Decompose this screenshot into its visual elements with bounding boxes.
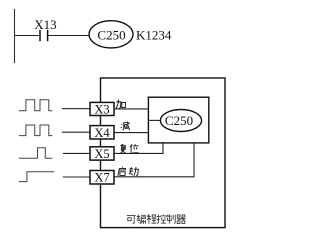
waveform X3 (two count pulses) xyxy=(19,100,53,111)
wire X5 elbow to counter block bottom xyxy=(114,143,163,154)
waveform X4 (two count pulses) xyxy=(19,125,53,136)
wire X7 waveform lead xyxy=(63,176,90,178)
counter block ellipse C250 xyxy=(160,110,201,132)
svg-text:X13: X13 xyxy=(34,17,56,32)
contact X13 xyxy=(40,30,48,41)
input terminal box X4 xyxy=(90,126,114,139)
svg-text:X7: X7 xyxy=(94,171,109,185)
lead wire from block edge to counter ellipse xyxy=(148,119,160,121)
waveform X7 (enable step) xyxy=(19,172,54,182)
counter function block box xyxy=(148,97,208,143)
wire X7 elbow to counter block bottom xyxy=(114,143,194,177)
label 可编程控制器 (programmable controller) xyxy=(127,215,186,224)
编 xyxy=(137,215,146,224)
wire X5 waveform lead xyxy=(63,152,90,154)
svg-text:X3: X3 xyxy=(94,102,109,116)
label 复位 (reset) xyxy=(120,144,138,153)
svg-text:C250: C250 xyxy=(165,113,193,128)
svg-text:X5: X5 xyxy=(94,147,109,161)
input terminal box X3 xyxy=(90,102,114,115)
left power rail xyxy=(14,9,16,63)
可 xyxy=(127,215,136,217)
PLC enclosure box xyxy=(101,78,226,228)
counter coil C250 ellipse xyxy=(89,21,133,48)
程 xyxy=(147,215,157,224)
svg-text:C250: C250 xyxy=(97,28,125,43)
rung wire (contact to coil) xyxy=(48,35,89,37)
waveform X5 (single reset pulse) xyxy=(19,148,53,159)
rung wire (rail to contact) xyxy=(15,35,41,37)
wire X4 waveform lead xyxy=(62,131,90,133)
label 加 (add) xyxy=(116,100,125,109)
input terminal box X5 xyxy=(90,147,114,160)
制 xyxy=(167,215,175,224)
input terminal box X7 xyxy=(90,171,114,185)
控 xyxy=(157,215,167,224)
svg-text:K1234: K1234 xyxy=(136,28,172,43)
svg-text:X4: X4 xyxy=(94,126,110,140)
wire X3 to counter block xyxy=(114,108,148,110)
wire X3 waveform lead xyxy=(62,108,90,110)
器 xyxy=(177,215,186,224)
wire X4 to counter block xyxy=(114,132,148,134)
label 减 (subtract) xyxy=(121,122,130,131)
label 启动 (start) xyxy=(118,167,138,176)
